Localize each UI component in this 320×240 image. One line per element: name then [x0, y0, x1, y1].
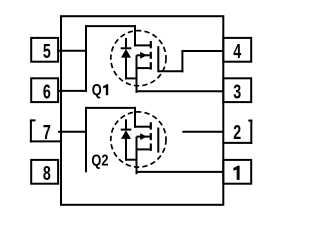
transistor Q1 [111, 31, 166, 93]
wire pin7 to Q2 bus [58, 131, 87, 133]
wire Q1 gate riser [181, 50, 183, 72]
pin 1 box [223, 160, 251, 184]
wire Q1 gate to pin4 [181, 50, 223, 52]
Q1 drain contact stub [134, 44, 150, 46]
Q1 channel top segment [150, 41, 152, 48]
Q1 body stub with arrow [137, 54, 150, 56]
Q1 body arrow [140, 52, 147, 59]
Q2 body diode anode lead [125, 138, 127, 160]
Q2 channel bottom segment [150, 144, 152, 151]
svg-text:5: 5 [43, 39, 51, 62]
wire Q1 source to pin3 [136, 90, 224, 92]
wire Q2 gate to pin2 [182, 131, 223, 133]
Q1 body diode triangle [121, 49, 131, 58]
svg-text:Q2: Q2 [91, 152, 108, 170]
Q2 body arrow [140, 133, 147, 140]
pin 2 box (open top; washed-out edge in source) [250, 120, 252, 144]
Q2 body diode anode wire to source [125, 159, 137, 161]
pin 4 box [223, 38, 251, 62]
Q2 gate line [157, 128, 159, 153]
pin 5 box [31, 38, 58, 62]
Q1 dashed body circle [111, 31, 166, 86]
pin 3 box [223, 78, 251, 102]
wire Q2 drain drop [134, 107, 136, 128]
svg-text:2: 2 [233, 121, 241, 144]
Q2 body diode triangle [121, 130, 131, 139]
svg-text:4: 4 [233, 39, 241, 62]
pin 8 box [31, 160, 58, 184]
Q1 source line [136, 55, 138, 93]
Q2 source line [136, 137, 138, 175]
Q1 channel middle segment [150, 52, 152, 59]
Q2 body diode cathode lead [125, 119, 127, 129]
Q1 body diode cathode bar [121, 47, 132, 49]
svg-text:6: 6 [43, 80, 51, 103]
node Q2 bus (vertical, dangling below pin7) [85, 107, 87, 172]
wire Q2 source to pin1 [136, 171, 224, 173]
wire Q1 drain drop [134, 25, 136, 46]
svg-text:3: 3 [233, 80, 241, 103]
svg-text:7: 7 [43, 121, 51, 144]
wire pin6 to Q1 drain bus [58, 90, 87, 92]
Q1 source contact stub [137, 67, 150, 69]
svg-text:Q: Q [92, 82, 102, 100]
package outline [61, 16, 223, 205]
Q2 channel middle segment [150, 133, 152, 140]
pin 1 label [233, 166, 239, 180]
Q2 dashed body circle [111, 112, 166, 167]
transistor Q2 [111, 112, 166, 174]
wire Q1 gate horizontal run [158, 70, 183, 72]
Q2 drain contact stub [134, 126, 150, 128]
Q1 body diode anode lead [125, 57, 127, 79]
Q1 body diode anode wire to source [125, 77, 137, 79]
Q1 channel bottom segment [150, 62, 152, 69]
wire Q2 drain top run [85, 107, 136, 109]
Q1 gate line [157, 46, 159, 72]
Q1 body diode cathode lead [125, 38, 127, 48]
Q2 channel top segment [150, 122, 152, 129]
Q2 body stub with arrow [137, 136, 150, 138]
svg-text:8: 8 [43, 161, 51, 184]
pin 6 box [31, 78, 58, 102]
Q2 source contact stub [137, 148, 150, 150]
pin 7 box (open top-right; washed-out edges in source) [30, 120, 32, 143]
wire pin5 to Q1 drain bus [58, 50, 87, 52]
wire Q1 drain top run [85, 25, 136, 27]
Q2 body diode cathode bar [121, 129, 132, 131]
node Q1 drain bus (vertical) [85, 25, 87, 92]
